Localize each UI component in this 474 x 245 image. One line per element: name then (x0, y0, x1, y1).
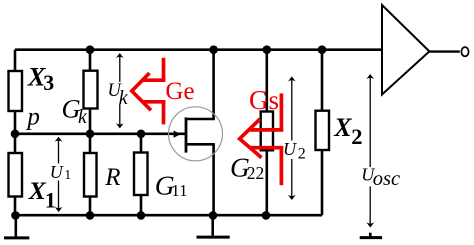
red arrow Gs (lower bent arrow) (250, 146, 283, 185)
svg-text:p: p (25, 103, 40, 130)
junction dot ground rail / source (209, 211, 218, 220)
wire top rail (15, 48, 382, 51)
svg-text:k: k (78, 107, 87, 128)
white gap behind label U_k (107, 82, 128, 104)
junction dot top rail / X2 (318, 45, 327, 54)
svg-text:1: 1 (45, 188, 56, 213)
ground left (4, 216, 29, 238)
red arrow Gs (upper bent arrow) (240, 93, 284, 157)
label G11 (155, 170, 188, 201)
resistor R (84, 153, 97, 197)
label Ge (165, 78, 194, 105)
wire column A top (X3 to rail) (14, 50, 17, 71)
transistor Q1 circle (169, 107, 223, 161)
svg-text:2: 2 (298, 145, 306, 162)
wire column B top (Gk to rail) (89, 50, 92, 71)
label Gk (62, 93, 88, 128)
svg-text:osc: osc (373, 168, 400, 190)
label U_1 (50, 162, 71, 182)
label Gs (249, 85, 279, 115)
svg-text:R: R (104, 164, 120, 191)
white gap behind label U_1 (50, 164, 71, 181)
wire drain of Q1 to top rail (212, 50, 215, 120)
resistor G11 (134, 153, 148, 196)
resistor Gk (84, 71, 98, 109)
transistor Q1 drain bar (185, 118, 215, 121)
transistor Q1 gate arrowhead (174, 131, 181, 138)
svg-text:2: 2 (351, 124, 362, 149)
svg-text:1: 1 (64, 167, 71, 182)
wire node p rail (14, 133, 185, 136)
ground right (under U_osc) (360, 233, 382, 238)
voltage arrow U_k (116, 53, 124, 128)
svg-text:k: k (119, 87, 129, 109)
label G22 (230, 151, 264, 183)
red arrow Ge (lower bent arrow) (143, 100, 165, 124)
svg-text:U: U (283, 139, 297, 159)
voltage arrow U_1 (55, 137, 63, 212)
svg-text:Ge: Ge (165, 78, 194, 105)
svg-text:3: 3 (43, 70, 54, 95)
label X1 (28, 176, 56, 213)
junction dot top rail / drain (209, 45, 218, 54)
wire bottom ground rail (14, 214, 323, 217)
svg-text:X: X (333, 113, 352, 142)
junction dot ground rail / G22 (262, 211, 271, 220)
wire column C bottom (G11 to ground rail) (140, 195, 143, 216)
svg-text:Gs: Gs (249, 85, 279, 115)
transistor Q1 source bar (185, 143, 215, 146)
svg-text:U: U (50, 162, 64, 182)
voltage arrow U_2 (288, 76, 296, 200)
wire source of Q1 to ground rail (212, 144, 215, 216)
output terminal o (461, 47, 468, 56)
wire column B mid (Gk to node p) (89, 108, 92, 134)
label U_2 (283, 139, 306, 162)
red arrow Ge (upper bent arrow) (132, 58, 166, 111)
wire column A mid (X3 to node p) (14, 111, 17, 134)
svg-text:11: 11 (171, 181, 187, 200)
wire amplifier output (429, 50, 459, 52)
white gap behind label U_2 (283, 141, 306, 160)
resistor X2 (316, 111, 330, 150)
wire column E top (G22 to rail) (265, 50, 268, 112)
wire column A bottom (X1 to ground rail) (14, 196, 17, 216)
junction dot node p / G11 column (137, 130, 146, 139)
wire column F top (X2 to rail) (321, 50, 324, 111)
junction dot ground rail / G11 (137, 211, 146, 220)
junction dot top rail / Gk (86, 45, 95, 54)
resistor X1 (9, 153, 23, 197)
transistor Q1 gate bar (185, 117, 188, 152)
label U_osc (361, 164, 400, 190)
resistor G22 (261, 112, 273, 151)
white gap behind label U_osc (361, 167, 401, 187)
wire column F bottom (X2 to ground rail) (321, 150, 324, 215)
amplifier A1 triangle (382, 5, 429, 95)
junction dot node p / X column (11, 130, 20, 139)
wire column B lower (node p to R) (89, 134, 92, 153)
voltage arrow U_osc (366, 74, 374, 228)
svg-text:22: 22 (247, 163, 264, 183)
wire column A lower (node p to X1) (14, 134, 17, 153)
label X3 (27, 62, 55, 95)
junction dot node p / R column (86, 130, 95, 139)
junction dot ground rail / X1 (11, 211, 20, 220)
wire column E bottom (G22 to ground rail) (265, 150, 268, 216)
junction dot ground rail / R (86, 211, 95, 220)
label X2 (333, 113, 362, 149)
wire column C upper (node p to G11) (140, 134, 143, 153)
label R (104, 164, 120, 191)
ground middle (source) (197, 216, 230, 238)
label p (node p) (25, 103, 40, 130)
junction dot top rail / G22 (263, 45, 272, 54)
wire column B bottom (R to ground rail) (89, 196, 92, 216)
label U_k (108, 81, 129, 109)
resistor X3 (9, 71, 23, 111)
